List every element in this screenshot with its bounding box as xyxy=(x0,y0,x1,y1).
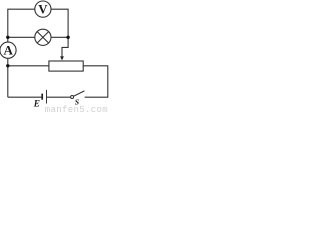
ammeter A1 circle xyxy=(0,42,16,58)
wire left rail lower xyxy=(7,58,9,97)
node junction dot left rheostat row xyxy=(6,64,9,67)
node junction dot left lamp row xyxy=(6,36,9,39)
wire voltmeter to top-right corner down to slider jog xyxy=(51,9,68,57)
rheostat R1 slider arrowhead xyxy=(60,56,64,60)
wire battery to switch xyxy=(47,96,71,98)
lamp L1 cross xyxy=(37,32,48,43)
battery E long plate (positive) xyxy=(46,90,48,104)
voltmeter V1 circle xyxy=(35,1,51,17)
switch S pivot circle xyxy=(71,96,74,99)
switch S lever xyxy=(74,91,85,96)
wire rheostat left lead xyxy=(8,65,49,67)
node junction dot right lamp row xyxy=(66,36,69,39)
wire top-left: left rail top corner to voltmeter xyxy=(8,9,35,42)
svg-text:E: E xyxy=(33,100,40,110)
wire lamp row left xyxy=(8,36,35,38)
svg-text:A: A xyxy=(4,42,14,57)
wire bottom left to battery xyxy=(8,96,42,98)
battery E short plate (negative) xyxy=(41,94,43,100)
svg-text:manfen5.com: manfen5.com xyxy=(45,105,108,114)
wire rheostat right lead and right rail xyxy=(83,66,108,97)
wire lamp row right xyxy=(51,36,68,38)
lamp L1 circle xyxy=(35,29,51,45)
svg-text:V: V xyxy=(38,3,48,17)
rheostat R1 body xyxy=(49,61,83,71)
